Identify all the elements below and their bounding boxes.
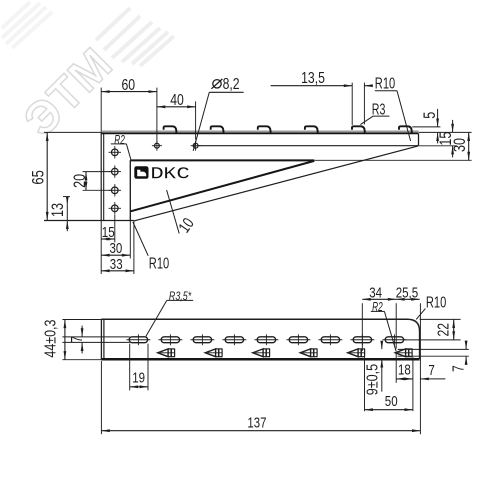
plan view: lance row extension lines to right [398,349,469,356]
plan view: top edge with R10 corner [101,319,419,359]
dimension 7 (lance to edge) [420,362,445,379]
svg-text:R10: R10 [149,255,169,272]
dimension 18 (lance length) [396,353,413,412]
dimension 60 [101,77,157,143]
dimension 25,5 [396,284,421,434]
dimension 30 (right) [315,132,472,160]
svg-text:18: 18 [398,362,411,379]
svg-text:R10: R10 [426,295,446,312]
svg-text:65: 65 [29,170,48,184]
label 10 (web thickness) with leader [167,190,198,236]
label R10 (bottom left) with leader [133,222,169,272]
side view: wall plate left edge (double line) [101,132,104,221]
label R3 with leader to tab radius [360,101,389,124]
side view: gusset web top edge (thick) [130,159,314,161]
svg-text:7: 7 [69,336,86,343]
dimension 15 (right) [419,120,457,157]
label R2 with leader to lance [371,300,396,351]
dimension 65 (plate height) [29,133,48,221]
dimension 19 (slot length) [130,344,148,391]
rail tabs (6 hooks on top of rail) [164,126,177,132]
side view: gusset flange outer edge (hypotenuse) [134,146,418,221]
svg-text:25,5: 25,5 [396,284,419,301]
svg-text:44±0,3: 44±0,3 [42,320,59,358]
svg-text:15: 15 [102,224,115,241]
svg-text:DKC: DKC [151,164,190,182]
svg-text:R2: R2 [114,133,125,147]
side view: rail bottom edge [199,145,419,147]
svg-text:33: 33 [110,256,123,273]
watermark ETM logo [2,2,174,146]
svg-text:20: 20 [71,174,89,188]
rail holes (2) with center ticks [155,143,160,148]
side view: rail right end edge [418,134,420,146]
label R10 with leader to plan corner [416,295,446,320]
dimension 33 (plate depth) [101,221,134,274]
svg-text:30: 30 [451,138,469,152]
label R3,5* with leader to slot [146,291,193,337]
dimension 30 (bottom left) [101,221,130,259]
plan view: slot channel lines / 7 extension [62,337,129,343]
plan view: left end double edge [101,319,104,359]
label diameter 8,2 with leader [193,76,243,151]
label R10 with leader to end tab [375,76,411,141]
plan view: bottom edge (thick) [101,358,419,361]
dimension 9±0,5 [364,342,381,395]
svg-text:7: 7 [451,365,468,372]
dimension 137 (overall) [101,361,420,434]
svg-text:7: 7 [428,362,434,379]
side view: plate bottom edge + 65/33 extension [44,220,134,222]
dimension 15 (bottom left) [101,215,115,243]
dimension 7 (slot width, left) [69,326,86,354]
svg-text:5: 5 [421,112,439,119]
dimension 7 (lance slot width, rotated right) [451,340,468,372]
plan view: slots (9) with center ticks [129,337,147,343]
svg-text:13,5: 13,5 [301,70,325,87]
svg-text:137: 137 [247,415,266,432]
svg-text:13: 13 [49,203,67,217]
DKC logo [134,164,189,182]
svg-text:R10: R10 [375,76,395,93]
svg-text:9±0,5: 9±0,5 [364,364,381,396]
plate holes (4) with center ticks [112,149,119,156]
dimension 13 (bottom hole offset) [49,197,70,232]
plan view: lances (6 pressed arrows) [158,349,168,357]
svg-text:19: 19 [132,370,145,387]
svg-text:30: 30 [110,240,123,257]
side view: top rail thick flange [101,130,418,132]
side view: gusset inner fold line (thick diagonal) [131,161,315,211]
label R2 with leader (plate top corner) [111,133,131,160]
svg-text:22: 22 [435,323,452,337]
dimension 34 [362,284,396,351]
svg-text:40: 40 [170,92,184,109]
dimension 40 [157,92,196,139]
side view: gusset web left edge [129,160,131,220]
svg-text:60: 60 [122,77,136,94]
svg-text:8,2: 8,2 [223,76,240,93]
svg-text:34: 34 [369,284,382,301]
dimension 44±0,3 [42,320,101,360]
dimension 50 [365,357,413,411]
dimension 13,5 [271,70,373,125]
dimension 5 (tab height) [412,109,440,143]
dimension 20 (hole pitch) [71,172,112,191]
dimension 22 [404,319,460,340]
side view: plate top extension line for 65 [44,131,101,133]
svg-text:50: 50 [385,393,398,410]
svg-text:R3,5*: R3,5* [169,291,192,303]
